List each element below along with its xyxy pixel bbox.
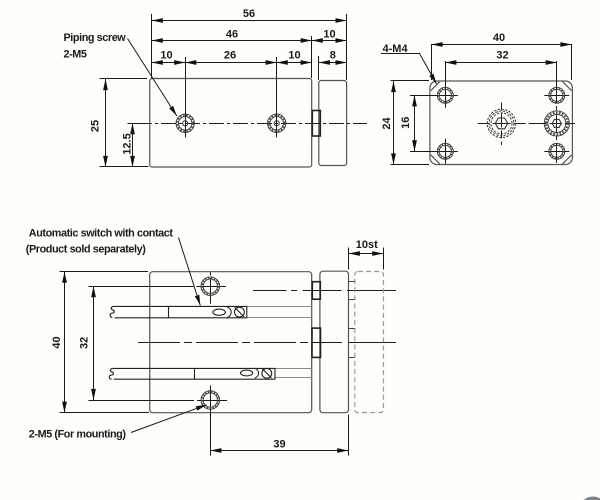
leader to piping hole — [128, 39, 177, 117]
svg-text:10: 10 — [323, 29, 335, 41]
slot lines lower — [275, 369, 312, 378]
svg-text:Automatic switch with contact: Automatic switch with contact — [29, 228, 174, 240]
drive connector block — [312, 328, 321, 357]
automatic switch lower — [109, 368, 275, 379]
dimension 24 — [393, 81, 395, 165]
svg-text:16: 16 — [400, 117, 412, 129]
svg-text:10: 10 — [160, 50, 172, 62]
dashed extended plate — [355, 272, 384, 413]
svg-text:39: 39 — [273, 438, 285, 450]
dimension 32 (top) — [445, 62, 557, 64]
dimension 32 (bottom view) — [93, 286, 95, 400]
corner gray blob — [579, 497, 600, 500]
svg-text:(Product sold separately): (Product sold separately) — [26, 244, 146, 256]
right middle threaded hole — [544, 111, 569, 136]
svg-text:25: 25 — [90, 120, 102, 132]
guide rod connector block — [312, 282, 320, 300]
dimension 26 — [185, 62, 277, 64]
drive connector block — [312, 111, 320, 137]
leader to switch — [179, 238, 201, 306]
extension line y=167 (25 bottom) — [100, 166, 149, 168]
plate rectangle — [320, 271, 349, 413]
extension line x=571.5 (40) — [571, 44, 573, 80]
extension lines 40 (bottom view) — [60, 271, 149, 273]
extension line y=79 (25 top) — [100, 78, 148, 80]
corner hole M4 bottom-right — [544, 143, 569, 159]
svg-text:24: 24 — [381, 117, 393, 130]
svg-text:56: 56 — [243, 8, 255, 20]
corner hole M4 top-left — [433, 83, 458, 108]
svg-text:12.5: 12.5 — [122, 133, 134, 154]
extension lines 16 — [410, 95, 434, 97]
dimension 12.5 — [132, 123, 134, 167]
dimension 25 — [105, 79, 107, 167]
corner chamfer marks — [431, 82, 572, 164]
svg-text:26: 26 — [224, 50, 236, 62]
svg-text:8: 8 — [330, 50, 336, 62]
svg-text:Piping screw: Piping screw — [64, 32, 127, 44]
slot lines upper — [247, 307, 312, 318]
mounting hole bottom (M5) — [189, 386, 227, 456]
dimension 40 (bottom view) — [64, 272, 66, 413]
rod centerline (upper) — [253, 290, 396, 292]
mounting hole top (M5) — [189, 272, 227, 304]
extension line x=318.8 — [318, 56, 320, 80]
dimension 40 (top) — [432, 44, 572, 46]
extension line x=311.7 — [311, 36, 313, 78]
svg-text:10st: 10st — [356, 239, 378, 251]
body rectangle — [150, 272, 312, 413]
dimension 56 — [152, 20, 347, 22]
corner hole M4 top-right — [544, 87, 569, 103]
dimension 10st — [348, 248, 350, 270]
svg-text:32: 32 — [78, 337, 90, 349]
piping hole 1 (2-M5) — [176, 114, 194, 132]
svg-text:40: 40 — [51, 336, 63, 348]
body rectangle — [150, 79, 312, 168]
extension lines 24 — [391, 80, 430, 82]
body rounded rect — [430, 81, 573, 165]
svg-text:40: 40 — [493, 32, 505, 44]
svg-text:46: 46 — [226, 29, 238, 41]
dimension 10 (row3 left) — [152, 62, 186, 64]
hole1 vertical centerline / extension — [185, 57, 187, 138]
extension line y=123.3 (12.5 top) — [128, 123, 147, 125]
dimension 10 (top right) — [312, 40, 347, 42]
dashed rod marks at extended position — [349, 282, 355, 358]
main centerline — [138, 342, 396, 344]
automatic switch upper — [110, 306, 247, 317]
right column vertical centerline — [556, 83, 558, 164]
dimension 39 — [348, 415, 350, 456]
extension line left x=151.7 — [151, 14, 153, 78]
center bore hole — [478, 103, 575, 146]
leader to mounting hole — [131, 405, 207, 433]
svg-text:2-M5 (For mounting): 2-M5 (For mounting) — [29, 429, 127, 441]
dimension 16 — [414, 95, 416, 151]
svg-text:2-M5: 2-M5 — [64, 49, 87, 61]
svg-text:32: 32 — [496, 50, 508, 62]
extension line x=346.6 — [346, 14, 348, 80]
horizontal centerline — [137, 123, 367, 125]
hole2 vertical centerline / extension — [276, 57, 278, 138]
extension line x=431.5 (40) — [431, 44, 433, 80]
extension lines 32 (bottom view) — [89, 286, 190, 288]
svg-text:10: 10 — [288, 50, 300, 62]
dimension 46 — [152, 40, 312, 42]
corner hole M4 bottom-left — [433, 139, 458, 164]
dimension 10 (row3 right) — [277, 62, 312, 64]
dimension 8 — [319, 62, 347, 64]
end plate rectangle — [319, 81, 347, 166]
piping hole 2 — [268, 114, 286, 132]
